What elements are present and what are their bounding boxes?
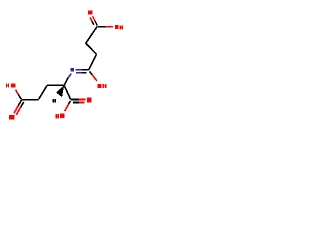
atom H of O3H label xyxy=(103,84,107,88)
bond N=C2 inner line (black half) xyxy=(82,72,87,74)
bond N=C2 inner line (blue half) xyxy=(76,72,82,74)
atom O1 (carbonyl O, top) xyxy=(88,10,92,14)
bond N=C2 outer line (black half) xyxy=(82,69,89,71)
bond C4-OH(bottom) black half xyxy=(69,101,71,104)
bond C1=O1 outer line (black half near C1) xyxy=(95,21,97,26)
bond C3-C4 xyxy=(64,85,71,99)
atom H of O2H label xyxy=(120,25,123,29)
atom O4 (carbonyl O, bottom left) xyxy=(9,115,14,120)
bond C4'=O4 outer line red half xyxy=(14,106,18,114)
bond N-C3 black half xyxy=(64,78,68,85)
bond C1=O1 outer line (red half near O) xyxy=(93,16,95,21)
bond K1-K2 (chain diagonal) xyxy=(39,85,48,99)
bond V2-C2 (chain) xyxy=(89,54,97,70)
bond C1-O2 red half xyxy=(105,26,113,28)
bond C4=O5 inner line black half xyxy=(73,102,79,104)
atom H of left HO label xyxy=(6,84,9,88)
bond C4-OH(bottom) red half xyxy=(65,104,69,111)
atom O of left HO label xyxy=(11,83,15,87)
bond C4'=O4 outer line black half xyxy=(18,100,21,105)
bond C2-O3 red half xyxy=(92,74,97,81)
bond N=C2 outer line (blue half) xyxy=(76,69,82,71)
bond C4=O5 inner line red half xyxy=(79,102,85,104)
bond C1=O1 inner line (black half) xyxy=(92,21,94,25)
atom O3 (hydroxyl O of imidic acid) xyxy=(98,84,102,88)
bond C1-V1 (chain) xyxy=(86,26,98,43)
bond C1=O1 inner line (red half) xyxy=(90,17,92,21)
bond C4'=O4 inner line red half xyxy=(16,107,20,115)
wedge bond C3-H (stereo) xyxy=(56,85,64,97)
bond N-C3 blue half xyxy=(68,74,71,78)
bond K2-C4' (horizontal chain) xyxy=(22,99,39,101)
atom O5 (carbonyl O, bottom middle) xyxy=(87,98,92,103)
bond C4=O5 outer line black half xyxy=(71,99,79,101)
atom O of bottom HO label xyxy=(60,114,64,119)
bond C4'-OH(left) black half xyxy=(18,95,21,100)
atom H (stereo hydrogen, black) xyxy=(53,99,56,102)
bond C4'=O4 inner line black half xyxy=(21,102,24,107)
atom H of bottom HO label xyxy=(56,114,59,118)
bond C4'-OH(left) red half xyxy=(16,90,19,95)
bond C3-K1 (horizontal chain) xyxy=(47,84,64,86)
bond C1-O2 black half xyxy=(98,26,106,28)
bond C4=O5 outer line red half xyxy=(79,99,86,101)
bond V1-V2 (chain) xyxy=(86,43,97,54)
atom O2 (hydroxyl O, top right) xyxy=(115,25,119,29)
atom N (imine nitrogen) xyxy=(71,68,74,72)
bond C2-O3 black half xyxy=(90,71,92,74)
